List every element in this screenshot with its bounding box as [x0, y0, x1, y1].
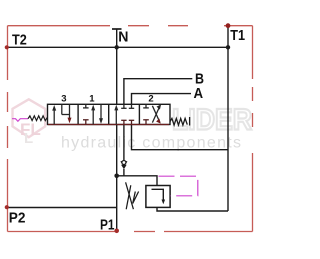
wire T2-T1: [7, 46, 228, 48]
box0 blocked ports bottom: [121, 120, 134, 124]
spring left: [28, 116, 47, 121]
box3 up arrow: [52, 105, 56, 124]
svg-text:2: 2: [148, 94, 153, 105]
watermark big text: [172, 104, 252, 137]
box1 up arrow: [91, 105, 95, 125]
box3 bend path: [62, 104, 72, 123]
port P1: [114, 229, 119, 234]
box1 blocked port: [83, 104, 89, 124]
wire port B: [124, 79, 192, 105]
wire T1 riser: [227, 26, 229, 211]
box0 blocked ports top: [121, 104, 134, 108]
boundary left: [7, 26, 9, 232]
node relief branch junction: [114, 174, 119, 179]
spring right: [170, 117, 190, 126]
watermark small text: [61, 135, 241, 152]
svg-text:L: L: [24, 130, 33, 147]
port T2: [5, 45, 9, 49]
box1 down arrow: [99, 105, 103, 124]
boundary bottom: [8, 231, 253, 233]
valve bottom edge red tinge: [48, 124, 169, 126]
wire P2: [7, 207, 117, 209]
svg-text:N: N: [118, 29, 128, 46]
port T1: [226, 23, 231, 28]
svg-text:T1: T1: [230, 27, 245, 44]
svg-text:A: A: [194, 85, 204, 102]
directional valve V1 body: [48, 104, 171, 124]
relief valve RV1: [146, 186, 170, 208]
check valve CV1: [121, 161, 127, 176]
svg-text:T2: T2: [12, 32, 27, 49]
pilot line (dashed): [159, 176, 198, 196]
wire port A: [132, 94, 192, 105]
svg-text:P2: P2: [9, 209, 26, 226]
wire carryover: [132, 125, 229, 150]
svg-text:P1: P1: [100, 216, 115, 233]
wire relief feed: [117, 176, 157, 186]
wire P1 riser: [116, 125, 118, 232]
left pilot line magenta: [12, 119, 28, 122]
wire check valve branch: [123, 125, 125, 162]
boundary right: [252, 26, 254, 232]
wire N riser: [116, 29, 118, 104]
wire relief outlet: [157, 207, 228, 211]
svg-text:1: 1: [89, 93, 95, 104]
box0 up arrow: [114, 105, 118, 125]
boundary top: [8, 25, 253, 27]
relief valve spring: [126, 182, 139, 209]
port N plug: [112, 28, 122, 30]
node T1 junction: [226, 45, 230, 49]
node N junction: [115, 45, 119, 49]
watermark hexagon logo: [13, 99, 46, 147]
port P2: [5, 205, 9, 209]
svg-text:3: 3: [61, 93, 66, 104]
box2 blocked port: [143, 104, 149, 124]
svg-text:hydraulic components: hydraulic components: [61, 135, 241, 152]
box2 crossed arrows: [152, 104, 161, 123]
